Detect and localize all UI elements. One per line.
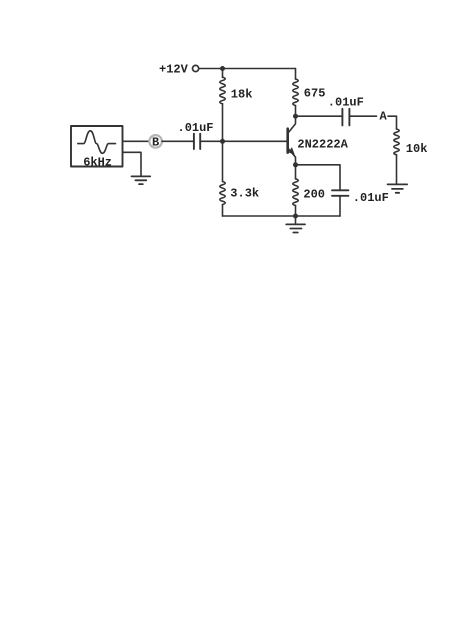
svg-text:.01uF: .01uF <box>328 96 364 110</box>
svg-text:B: B <box>152 136 159 150</box>
label +12V <box>159 62 189 76</box>
resistor R2 3.3k <box>220 141 225 216</box>
label 3.3k <box>230 187 259 201</box>
resistor R3 675 <box>293 69 298 117</box>
wire node B to capacitor C1 <box>162 140 194 142</box>
wire capacitor C1 to base node <box>200 140 222 142</box>
svg-text:200: 200 <box>303 187 325 201</box>
ground for emitter network <box>286 216 305 233</box>
capacitor C3 .01uF bypass <box>332 190 348 216</box>
wire bottom rail <box>223 215 341 217</box>
ground for 10k load <box>388 184 408 192</box>
+12V terminal <box>193 65 199 71</box>
transistor Q1 2N2222A <box>288 116 296 165</box>
junction base node <box>220 139 225 144</box>
svg-text:675: 675 <box>304 87 326 101</box>
label .01uF output <box>328 96 364 110</box>
capacitor C1 .01uF input coupling <box>194 134 200 149</box>
wire node A to 10k resistor <box>388 116 397 129</box>
label .01uF input <box>178 121 214 135</box>
label 200 <box>303 187 325 201</box>
resistor R5 200 <box>293 165 298 216</box>
resistor R4 10k <box>394 129 399 184</box>
svg-text:18k: 18k <box>231 88 253 102</box>
label 6kHz <box>83 156 112 170</box>
wire base node to transistor base <box>223 140 288 142</box>
svg-text:10k: 10k <box>406 142 428 156</box>
label 10k <box>406 142 428 156</box>
svg-text:3.3k: 3.3k <box>230 187 259 201</box>
wire +12V supply rail <box>199 68 296 70</box>
wire output capacitor to node A <box>349 115 376 117</box>
junction bottom rail <box>293 214 298 219</box>
svg-text:+12V: +12V <box>159 62 189 76</box>
node B test point <box>149 135 162 150</box>
wire source box to node B <box>123 140 149 142</box>
label 675 <box>304 87 326 101</box>
junction collector node <box>293 114 298 119</box>
svg-text:.01uF: .01uF <box>178 121 214 135</box>
node A <box>380 110 388 124</box>
svg-text:2N2222A: 2N2222A <box>297 137 348 151</box>
label .01uF bypass <box>353 191 389 205</box>
wire source box to ground <box>123 152 141 176</box>
resistor R1 18k <box>220 69 225 142</box>
wire emitter node to bypass capacitor <box>296 165 341 191</box>
ground for signal source <box>132 176 151 184</box>
capacitor C2 .01uF output <box>342 109 349 126</box>
junction top of 18k <box>220 66 225 71</box>
svg-text:6kHz: 6kHz <box>83 156 112 170</box>
junction emitter node <box>293 162 298 167</box>
svg-text:.01uF: .01uF <box>353 191 389 205</box>
label 18k <box>231 88 253 102</box>
svg-text:A: A <box>380 110 388 124</box>
wire collector node to output capacitor <box>296 115 343 117</box>
label 2N2222A <box>297 137 348 151</box>
signal source box 6kHz <box>71 126 123 167</box>
